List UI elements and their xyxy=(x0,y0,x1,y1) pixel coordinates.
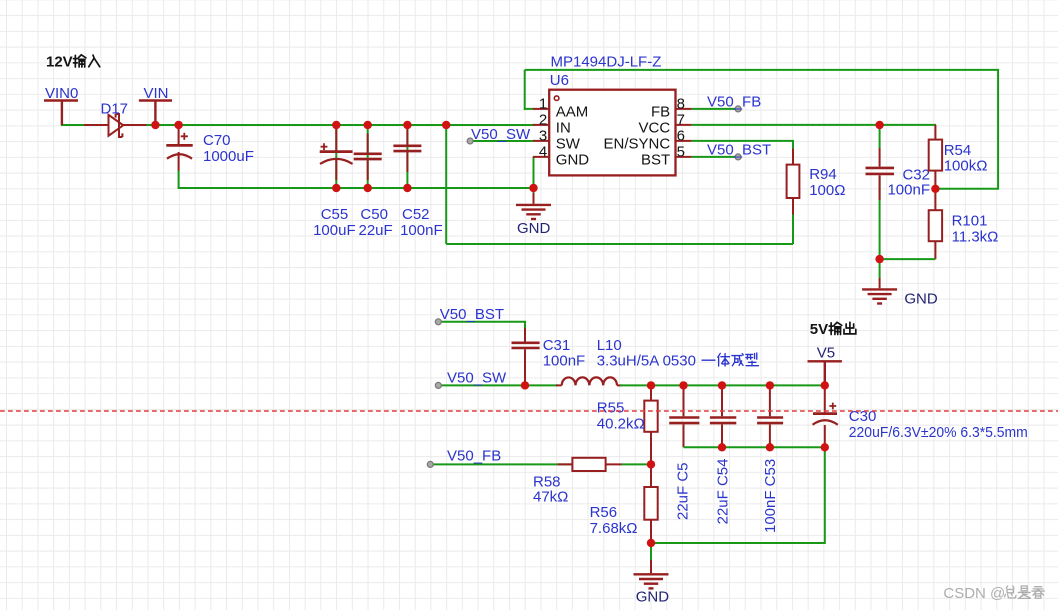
node V50_BST lower section xyxy=(435,306,525,342)
capacitor C70 (polarized 1000uF) xyxy=(166,125,254,188)
svg-text:V50_FB: V50_FB xyxy=(707,93,761,110)
svg-text:GND: GND xyxy=(556,151,590,168)
svg-text:R101: R101 xyxy=(952,213,988,230)
wire R58 to FB node xyxy=(622,463,652,465)
divider red dashed line xyxy=(0,410,1058,412)
svg-text:VIN: VIN xyxy=(144,85,169,102)
power port V5 xyxy=(808,345,842,386)
junction C52 xyxy=(403,121,411,129)
svg-text:AAM: AAM xyxy=(556,103,589,120)
svg-text:100nF: 100nF xyxy=(543,353,586,370)
pin 7 VCC xyxy=(639,111,692,136)
resistor R54 100k xyxy=(929,125,988,189)
junction C53 top xyxy=(766,381,774,389)
junction C54 bottom xyxy=(718,443,726,451)
junction C55 bottom xyxy=(332,184,340,192)
wire bottom rail C32 to R101 xyxy=(880,258,936,260)
svg-text:V50_SW: V50_SW xyxy=(471,126,531,143)
wire R56 bottom to ground xyxy=(650,543,652,560)
svg-text:1000uF: 1000uF xyxy=(203,148,254,165)
junction C31 bottom xyxy=(521,381,529,389)
svg-text:7: 7 xyxy=(677,111,685,128)
L10 value CJK glyphs xyxy=(702,353,758,366)
svg-text:11.3kΩ: 11.3kΩ xyxy=(952,228,999,245)
svg-text:22uF C54: 22uF C54 xyxy=(715,459,732,525)
resistor R58 47k xyxy=(533,458,622,506)
junction C50 xyxy=(364,121,372,129)
diode D17 (Schottky) xyxy=(84,101,147,138)
svg-text:C70: C70 xyxy=(203,132,231,149)
node V50_FB lower section xyxy=(427,447,572,467)
node V50_FB at pin8 xyxy=(692,93,762,112)
watermark CJK glyphs xyxy=(1005,586,1045,599)
title 5V output CJK glyphs xyxy=(829,322,856,334)
wire output cap bottom rail xyxy=(684,446,825,448)
svg-text:GND: GND xyxy=(517,220,551,237)
svg-text:V50_FB: V50_FB xyxy=(447,447,501,464)
junction ground rail xyxy=(647,539,655,547)
wire output rail down to ground rail xyxy=(651,447,825,543)
svg-text:6: 6 xyxy=(677,127,685,144)
resistor R101 11.3k xyxy=(929,189,999,259)
wire VCC pin7 to divider top xyxy=(692,124,936,126)
junction C5 top xyxy=(679,381,687,389)
wire VIN0 to D17 anode xyxy=(62,124,84,125)
junction GND rail xyxy=(529,184,537,192)
svg-text:V5: V5 xyxy=(817,345,835,362)
power port VIN xyxy=(139,85,172,124)
svg-text:FB: FB xyxy=(651,103,670,120)
capacitor C50 (22uF) xyxy=(354,129,393,239)
svg-text:V50_SW: V50_SW xyxy=(447,369,507,386)
svg-text:100nF: 100nF xyxy=(400,222,443,239)
wire lower rail to R94 bottom xyxy=(446,243,793,245)
svg-text:5: 5 xyxy=(677,143,685,160)
power port VIN0 xyxy=(44,85,78,125)
capacitor C54 22uF xyxy=(710,385,736,524)
svg-text:V50_BST: V50_BST xyxy=(707,141,771,158)
svg-text:C55: C55 xyxy=(321,206,349,223)
svg-text:12V: 12V xyxy=(46,54,73,71)
capacitor C55 (polarized 100uF) xyxy=(313,125,356,239)
svg-text:R56: R56 xyxy=(590,504,618,521)
junction R55 top xyxy=(647,381,655,389)
junction C50 bottom xyxy=(364,184,372,192)
svg-text:R94: R94 xyxy=(809,166,837,183)
svg-text:3: 3 xyxy=(539,127,547,144)
svg-text:8: 8 xyxy=(677,95,685,112)
svg-text:C31: C31 xyxy=(543,337,571,354)
junction vertical feed xyxy=(442,121,450,129)
svg-text:100nF C53: 100nF C53 xyxy=(762,459,779,533)
svg-text:22uF: 22uF xyxy=(359,222,393,239)
resistor R94 100 ohm xyxy=(787,149,846,244)
ground GND right xyxy=(862,278,938,308)
pin 6 EN/SYNC xyxy=(604,127,692,152)
title 12V input xyxy=(46,54,73,71)
pin 1 indicator circle xyxy=(554,96,559,101)
pin 3 SW xyxy=(533,127,581,152)
junction FB node xyxy=(647,460,655,468)
capacitor C5 22uF xyxy=(669,385,699,520)
svg-text:3.3uH/5A 0530: 3.3uH/5A 0530 xyxy=(597,353,696,370)
wire EN/SYNC pin6 to R94 xyxy=(692,141,793,165)
resistor R56 7.68k xyxy=(590,464,658,543)
node V50_SW at pin3 xyxy=(467,126,533,144)
junction C32 top xyxy=(875,121,883,129)
svg-text:220uF/6.3V±20% 6.3*5.5mm: 220uF/6.3V±20% 6.3*5.5mm xyxy=(849,424,1028,441)
svg-text:D17: D17 xyxy=(101,101,129,118)
svg-text:C52: C52 xyxy=(402,206,430,223)
svg-text:SW: SW xyxy=(556,135,581,152)
title 12V input CJK glyphs xyxy=(73,55,99,67)
junction V5 output xyxy=(821,381,829,389)
resistor R55 40.2k xyxy=(597,385,658,464)
pin 2 IN xyxy=(533,111,571,136)
junction C70 xyxy=(174,121,182,129)
junction C54 top xyxy=(718,381,726,389)
junction divider mid xyxy=(931,185,939,193)
svg-text:MP1494DJ-LF-Z: MP1494DJ-LF-Z xyxy=(551,54,662,71)
junction C53 bottom xyxy=(766,443,774,451)
svg-text:5V: 5V xyxy=(810,321,828,338)
svg-text:R55: R55 xyxy=(597,400,625,417)
svg-text:VIN0: VIN0 xyxy=(45,85,78,102)
svg-text:EN/SYNC: EN/SYNC xyxy=(604,135,671,152)
svg-text:IN: IN xyxy=(556,119,571,136)
pin 5 BST xyxy=(641,143,692,168)
wire bottom rail C70 to GND junction xyxy=(179,187,534,188)
capacitor C30 (polarized 220uF) xyxy=(813,385,1028,447)
svg-text:2: 2 xyxy=(539,111,547,128)
svg-text:7.68kΩ: 7.68kΩ xyxy=(590,520,638,537)
op-amp U1 : regulator U6 MP1494DJ-LF-Z body xyxy=(549,54,675,176)
svg-text:U6: U6 xyxy=(550,72,569,89)
wire VCC rail to C32 down xyxy=(879,125,881,259)
svg-text:100kΩ: 100kΩ xyxy=(944,158,988,175)
wire D17 cathode to IN pin of U6 xyxy=(147,124,534,126)
junction VIN xyxy=(151,121,159,129)
wire top rail (AAM to feedback divider) xyxy=(525,70,998,189)
ground GND under U6 xyxy=(516,193,551,237)
svg-text:CSDN @: CSDN @ xyxy=(943,585,1005,602)
capacitor C53 100nF xyxy=(757,385,783,533)
svg-text:100uF: 100uF xyxy=(313,222,356,239)
svg-text:100nF: 100nF xyxy=(887,182,930,199)
capacitor C52 (100nF) xyxy=(393,128,442,239)
wire C32 to ground xyxy=(879,259,881,278)
svg-text:BST: BST xyxy=(641,151,670,168)
svg-text:GND: GND xyxy=(636,589,670,606)
wire vertical feed to lower rail xyxy=(445,125,447,244)
inductor L10 3.3uH xyxy=(556,337,696,386)
svg-text:22uF C5: 22uF C5 xyxy=(675,462,692,520)
wire SW rail to output xyxy=(620,384,825,386)
pin 8 FB xyxy=(651,95,692,120)
watermark xyxy=(943,585,1005,602)
node V50_SW lower section xyxy=(435,369,557,388)
svg-text:R54: R54 xyxy=(944,142,972,159)
svg-text:40.2kΩ: 40.2kΩ xyxy=(597,415,645,432)
pin 1 AAM xyxy=(533,95,589,120)
svg-text:VCC: VCC xyxy=(639,119,671,136)
svg-text:1: 1 xyxy=(539,95,547,112)
capacitor C31 100nF xyxy=(512,328,586,385)
ground GND bottom xyxy=(634,560,670,606)
junction C55 xyxy=(332,121,340,129)
svg-text:C50: C50 xyxy=(360,206,388,223)
wire AAM pin1 to top rail xyxy=(525,70,533,110)
junction C32 bottom xyxy=(875,255,883,263)
svg-text:L10: L10 xyxy=(597,337,622,354)
junction C52 bottom xyxy=(403,184,411,192)
svg-text:V50_BST: V50_BST xyxy=(440,306,504,323)
svg-text:100Ω: 100Ω xyxy=(809,182,845,199)
junction C30 bottom xyxy=(821,443,829,451)
title 5V output xyxy=(810,321,828,338)
svg-text:GND: GND xyxy=(904,291,938,308)
svg-text:4: 4 xyxy=(539,143,547,160)
wire GND pin4 down to rail xyxy=(533,157,535,193)
pin 4 GND xyxy=(533,143,590,168)
capacitor C32 100nF xyxy=(866,148,931,200)
svg-text:47kΩ: 47kΩ xyxy=(533,489,568,506)
node V50_BST at pin5 xyxy=(692,141,772,160)
